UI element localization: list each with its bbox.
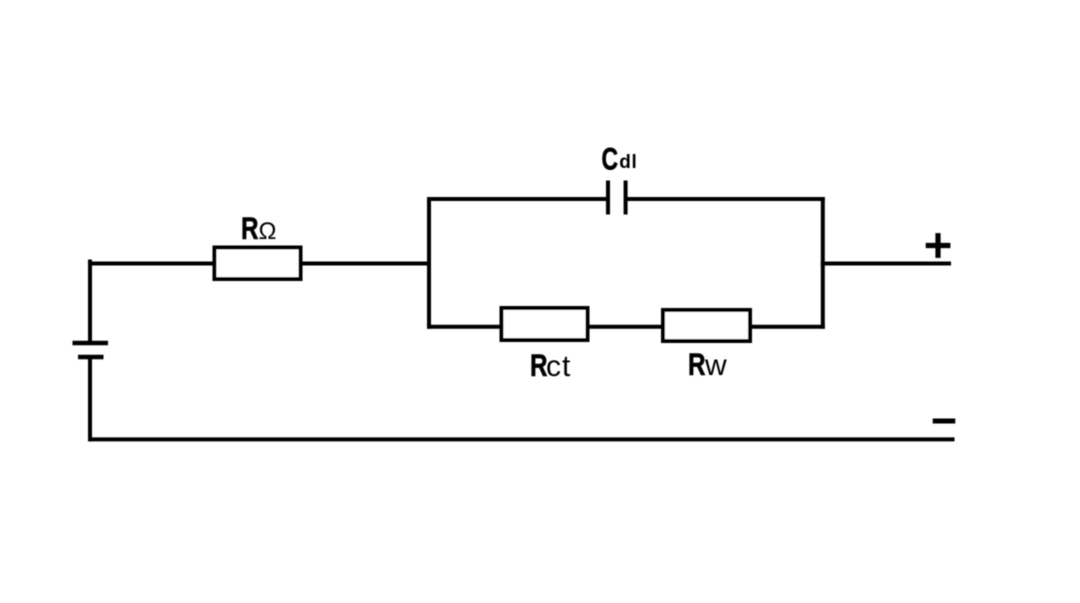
wire parallel block left vertical (427, 199, 431, 327)
capacitor Cdl right plate (624, 181, 628, 215)
wire left vertical upper (battery to node) (88, 262, 92, 344)
wire parallel block right vertical (821, 199, 825, 327)
resistor Rct (502, 308, 588, 340)
resistor Rw (663, 310, 750, 341)
resistor R_ohm (215, 248, 301, 280)
wire left vertical lower (battery to bottom rail) (88, 357, 92, 439)
plus terminal (926, 233, 951, 258)
wire output to plus terminal (823, 262, 949, 266)
capacitor Cdl left plate (606, 181, 610, 215)
wire bottom branch right segment (752, 325, 823, 329)
wire resistor to parallel node (303, 262, 430, 266)
battery B1 bottom plate (78, 355, 104, 360)
svg-text:dl: dl (619, 152, 637, 173)
wire top branch left segment (429, 197, 606, 201)
wire bottom branch middle segment (590, 325, 662, 329)
battery B1 top plate (73, 341, 109, 346)
wire bottom branch left segment (429, 325, 500, 329)
wire bottom rail to minus terminal (90, 437, 953, 441)
svg-text:R: R (688, 346, 706, 382)
wire top branch right segment (628, 197, 823, 201)
wire battery top to resistor (90, 262, 213, 266)
svg-text:Ω: Ω (259, 218, 277, 245)
svg-text:R: R (241, 210, 259, 246)
svg-text:ct: ct (546, 350, 571, 383)
svg-text:w: w (704, 349, 727, 382)
minus terminal (933, 419, 956, 424)
svg-text:C: C (602, 140, 619, 176)
